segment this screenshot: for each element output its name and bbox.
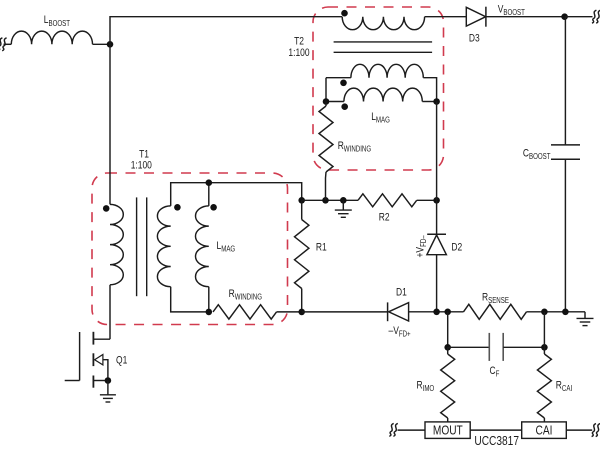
svg-text:T2: T2 (294, 36, 304, 48)
svg-text:1:100: 1:100 (288, 47, 310, 59)
svg-text:D3: D3 (469, 33, 480, 45)
svg-text:R2: R2 (379, 211, 390, 223)
svg-text:Q1: Q1 (116, 355, 127, 367)
svg-text:D1: D1 (396, 287, 407, 299)
svg-text:MOUT: MOUT (433, 423, 463, 438)
svg-text:1:100: 1:100 (131, 160, 153, 172)
svg-text:CAI: CAI (536, 423, 553, 438)
svg-text:R1: R1 (316, 242, 327, 254)
svg-text:D2: D2 (451, 242, 462, 254)
svg-text:UCC3817: UCC3817 (474, 434, 519, 446)
